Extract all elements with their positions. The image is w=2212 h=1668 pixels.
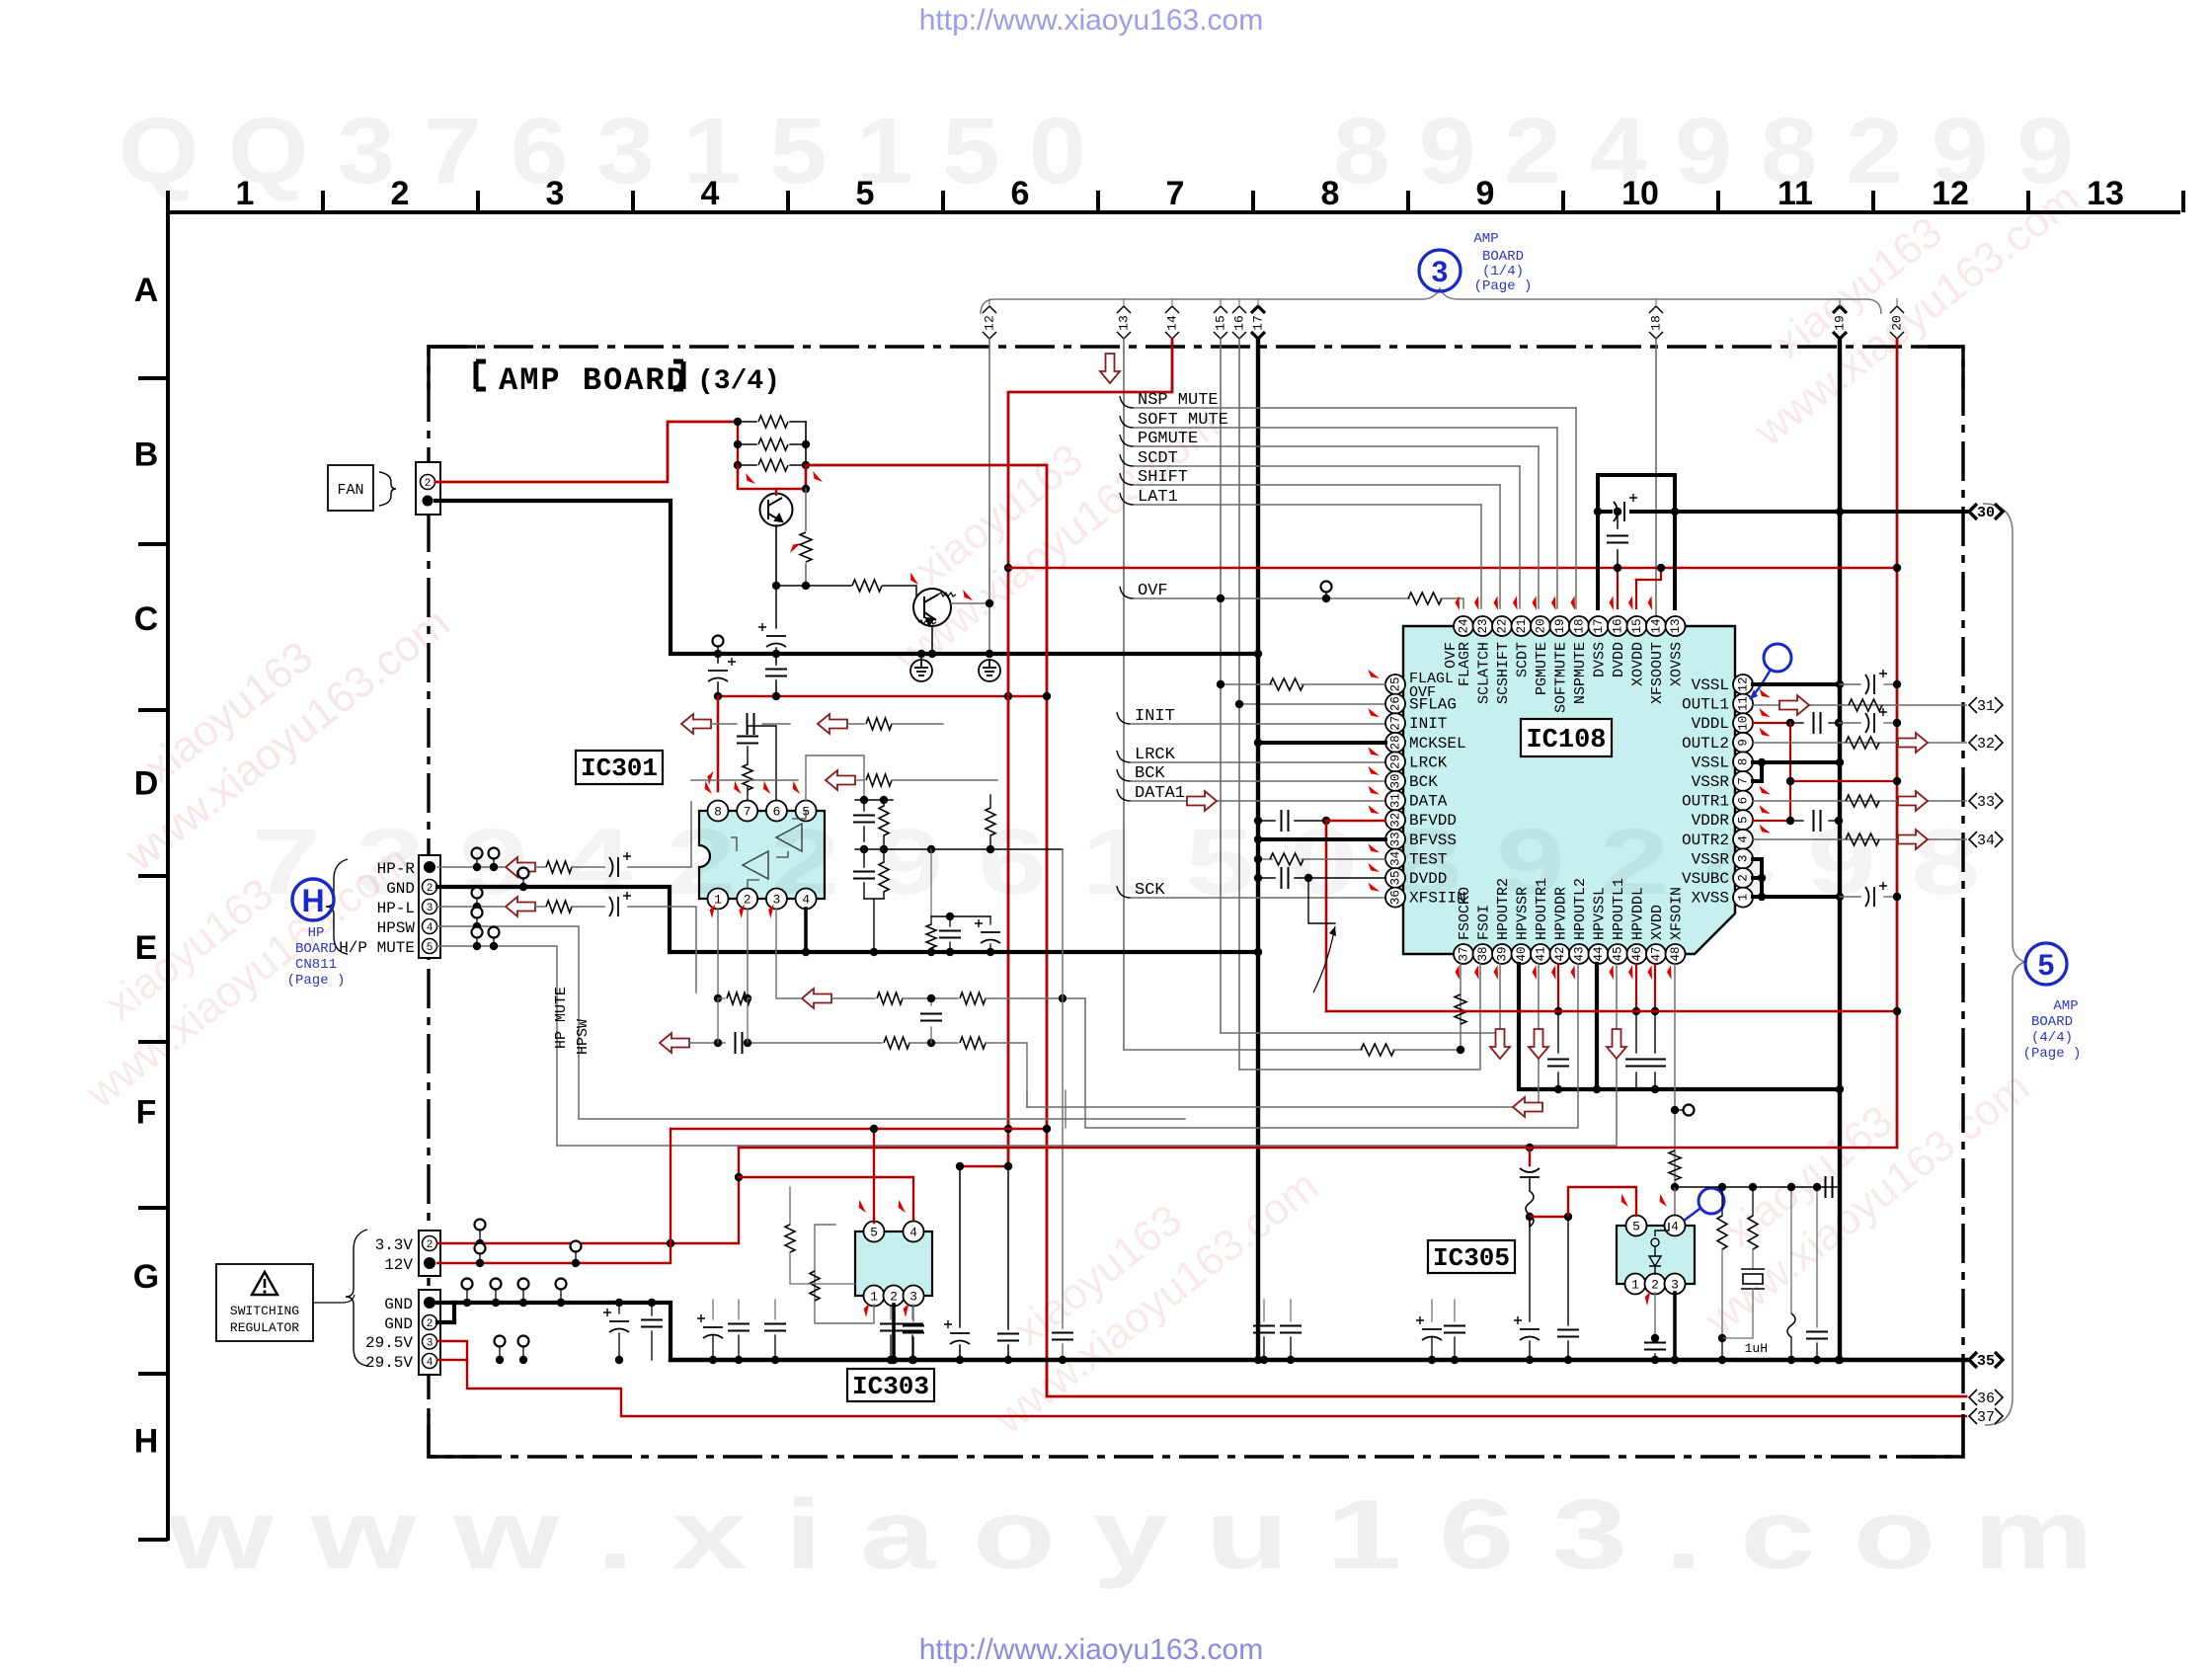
connector 34 <box>1969 832 2003 847</box>
wire Q1 base feed <box>738 465 806 489</box>
wire <box>1884 683 1897 685</box>
pin 1 <box>1625 1274 1646 1295</box>
svg-text:SHIFT: SHIFT <box>1138 468 1188 487</box>
callout circle blue <box>1764 644 1791 672</box>
pin 26 <box>1385 694 1405 714</box>
svg-text:(4/4): (4/4) <box>2031 1030 2073 1046</box>
junction <box>1836 680 1844 688</box>
svg-text:(Page ): (Page ) <box>1474 278 1533 294</box>
svg-text:SFLAG: SFLAG <box>1409 696 1457 714</box>
junction <box>1758 874 1766 882</box>
wire pin25 net <box>1221 683 1272 685</box>
wire <box>989 944 991 952</box>
wire p5 stub <box>806 755 864 800</box>
pin 35 <box>1385 868 1405 888</box>
svg-text:5: 5 <box>856 175 875 212</box>
junction <box>1835 1356 1843 1364</box>
border corner BL <box>429 1414 476 1457</box>
pin 13 <box>1666 616 1686 636</box>
connector 17 <box>1251 306 1265 339</box>
wire red net14 <box>1008 339 1172 1166</box>
pin 36 <box>1385 888 1405 908</box>
svg-text:3: 3 <box>1671 1278 1679 1293</box>
svg-text:BOARD: BOARD <box>1482 249 1524 265</box>
wire OUTL1 <box>1753 704 1966 706</box>
probe mark <box>1531 965 1543 980</box>
svg-text:7: 7 <box>1736 777 1750 785</box>
inductor L305 <box>1526 1191 1534 1227</box>
junction <box>572 1259 580 1267</box>
pin 4 <box>1733 830 1753 849</box>
junction <box>1614 564 1621 572</box>
junction <box>1836 893 1844 901</box>
svg-text:NSPMUTE: NSPMUTE <box>1572 642 1589 704</box>
wire <box>1654 1293 1656 1338</box>
junction <box>476 1239 484 1247</box>
wire IC305 feed <box>1529 1148 1531 1165</box>
svg-text:9: 9 <box>1736 739 1750 747</box>
resistor <box>1846 834 1879 845</box>
capacitor C p3 <box>903 1326 924 1333</box>
probe mark <box>1367 882 1381 891</box>
wire Q2 out <box>951 602 989 604</box>
wire p3 down <box>776 909 800 998</box>
svg-text:REGULATOR: REGULATOR <box>230 1320 299 1335</box>
wire DVDD35 a <box>1258 877 1275 879</box>
signal arrow <box>826 770 855 790</box>
svg-text:35: 35 <box>1977 1353 1995 1370</box>
svg-text:(Page ): (Page ) <box>287 973 346 989</box>
wire <box>1431 1300 1433 1321</box>
wire <box>522 878 524 887</box>
probe mark <box>1367 843 1381 852</box>
svg-text:2: 2 <box>391 175 410 212</box>
signal arrow <box>802 989 831 1008</box>
svg-text:PGMUTE: PGMUTE <box>1138 430 1198 448</box>
electrolytic capacitor C emitter <box>758 623 786 647</box>
capacitor C rail2 <box>765 670 787 676</box>
svg-text:30: 30 <box>1388 773 1402 788</box>
junction <box>927 948 935 956</box>
wire <box>855 799 893 801</box>
svg-text:10: 10 <box>1621 175 1659 212</box>
wire <box>738 443 756 445</box>
wire <box>1131 800 1385 802</box>
resistor <box>800 532 812 562</box>
junction <box>1671 508 1679 516</box>
svg-text:BCK: BCK <box>1409 773 1438 791</box>
test point <box>495 1336 506 1347</box>
test point <box>571 1241 582 1252</box>
junction <box>1749 1183 1757 1191</box>
junction <box>709 1356 717 1364</box>
svg-text:AMP: AMP <box>2053 998 2078 1014</box>
border corner TL <box>429 347 476 389</box>
resistor R rc2 <box>879 862 889 892</box>
border corner TR <box>1916 347 1963 389</box>
capacitor C r748 <box>728 1324 750 1331</box>
junction <box>744 994 751 1002</box>
wire <box>1675 1109 1683 1111</box>
test point <box>518 868 529 879</box>
junction <box>1043 692 1051 700</box>
svg-text:2: 2 <box>427 1318 434 1330</box>
wire ladder right rail <box>805 422 807 465</box>
svg-text:7 3 9 4 2 2 9 6 1 5 0 8 9 2 4: 7 3 9 4 2 2 9 6 1 5 0 8 9 2 4 9 8 <box>252 810 1980 914</box>
junction <box>956 1356 964 1364</box>
wire <box>790 464 806 466</box>
ruler top line <box>168 210 2180 214</box>
probe mark <box>1665 965 1678 980</box>
wire <box>1529 1177 1531 1191</box>
wire <box>903 997 958 999</box>
wire main red +B <box>806 465 1966 1396</box>
probe mark <box>1367 863 1381 872</box>
pin 41 <box>1531 944 1550 964</box>
title bracket right <box>673 361 683 389</box>
probe mark <box>1367 670 1381 678</box>
svg-text:9: 9 <box>1476 175 1495 212</box>
capacitor C r924 <box>902 1324 923 1331</box>
wire <box>476 917 478 926</box>
probe mark <box>731 781 746 794</box>
junction <box>1287 1356 1295 1364</box>
wire <box>1134 504 1481 506</box>
wire 29.5V b <box>437 1360 1966 1416</box>
wire Q2 emitter gnd <box>931 626 933 654</box>
capacitor C vddl <box>1814 712 1821 734</box>
wire <box>717 682 719 696</box>
svg-text:12: 12 <box>1932 175 1969 212</box>
switching regulator box <box>216 1264 313 1341</box>
svg-text:HPSW: HPSW <box>575 1019 592 1055</box>
wire HPVDDR <box>1557 964 1559 1011</box>
pin 6 <box>1733 791 1753 811</box>
wire <box>1654 1011 1656 1053</box>
wire <box>1840 683 1860 685</box>
wire <box>949 942 951 952</box>
wire <box>911 1300 913 1319</box>
test point <box>518 1279 529 1290</box>
wire <box>1721 1338 1723 1360</box>
capacitor C 305b <box>1557 1330 1579 1337</box>
wire <box>1722 1289 1753 1338</box>
wire HPOUTR2 <box>1221 964 1500 1033</box>
wire HPSW <box>437 926 1185 1119</box>
test point <box>713 636 724 647</box>
HP pin 3 <box>423 900 437 914</box>
junction <box>735 1356 743 1364</box>
junction <box>1059 1356 1066 1364</box>
probe mark <box>1367 708 1381 717</box>
wire <box>847 723 864 725</box>
wire <box>738 1148 740 1243</box>
wire BFVDD red <box>1326 820 1385 822</box>
svg-text:13: 13 <box>2087 175 2124 212</box>
wire <box>476 937 478 946</box>
wire <box>790 1252 855 1284</box>
probe mark <box>863 1304 873 1317</box>
net label OVF <box>1120 587 1134 598</box>
wire <box>1557 1011 1559 1053</box>
junction <box>615 1299 623 1307</box>
capacitor C r785 <box>764 1324 786 1331</box>
wire <box>1062 1344 1064 1360</box>
pin 17 <box>1589 616 1609 636</box>
wire HPOUTR1 <box>1027 964 1539 1107</box>
wire <box>1007 1166 1009 1329</box>
capacitor C pwr2 <box>997 1334 1019 1341</box>
wire HPVSSL <box>1595 964 1599 1089</box>
pin 7 <box>1733 771 1753 791</box>
wire <box>618 1333 620 1360</box>
svg-text:21: 21 <box>1515 618 1529 633</box>
svg-text:XOVDD: XOVDD <box>1630 642 1647 686</box>
junction <box>927 845 935 853</box>
capacitor C p2 <box>1644 1343 1666 1350</box>
svg-text:1: 1 <box>870 1290 878 1305</box>
electrolytic capacitor C pwr1 <box>944 1320 970 1344</box>
crystal <box>1741 1269 1765 1289</box>
svg-text:G: G <box>133 1258 159 1296</box>
pwr pin 4 <box>423 1354 437 1369</box>
capacitor C rc2 <box>853 872 875 879</box>
wire stub 16 <box>1238 298 1240 306</box>
connector 16 <box>1232 306 1246 339</box>
svg-text:D: D <box>134 765 159 803</box>
wire stub 15 <box>1220 298 1222 306</box>
junction <box>1758 758 1766 766</box>
junction <box>1787 1183 1795 1191</box>
op-amp IC301 body <box>699 811 825 899</box>
pin 21 <box>1512 616 1532 636</box>
junction <box>1526 1356 1534 1364</box>
pwr pin 12v <box>424 1257 435 1269</box>
junction <box>1836 508 1844 516</box>
wire <box>930 998 932 1005</box>
wire <box>738 464 756 466</box>
probe mark <box>1758 825 1772 834</box>
wire VDDL <box>1753 722 1790 724</box>
svg-text:B: B <box>134 437 159 474</box>
svg-text:XFSOOUT: XFSOOUT <box>1649 642 1666 704</box>
probe mark <box>1656 1194 1671 1207</box>
connector 19 <box>1833 306 1847 339</box>
wire <box>1752 1187 1754 1216</box>
wire <box>1617 550 1619 568</box>
signal arrow <box>506 857 535 877</box>
wire <box>535 906 545 908</box>
junction <box>734 461 742 469</box>
pin 5 <box>1733 810 1753 830</box>
wire to Q2 base <box>776 585 851 587</box>
wire mid rail <box>855 848 1063 850</box>
wire <box>909 1042 958 1044</box>
wire red vdd rail <box>1326 1010 1897 1013</box>
svg-text:INIT: INIT <box>1409 715 1447 733</box>
wire net15 <box>1220 339 1222 1033</box>
svg-text:SOFTMUTE: SOFTMUTE <box>1553 642 1570 713</box>
wire net13 <box>1124 339 1362 1050</box>
wire FSOCKO <box>1460 964 1461 1050</box>
junction <box>1835 719 1843 727</box>
wire red 1162 <box>739 1147 1897 1149</box>
wire <box>747 726 749 733</box>
wire IC303 fb <box>815 1225 874 1323</box>
svg-text:12: 12 <box>1736 676 1750 691</box>
junction <box>1254 948 1262 956</box>
wire <box>774 1335 776 1360</box>
probe mark <box>895 1200 909 1213</box>
connector 33 <box>1969 793 2003 809</box>
resistor <box>1408 593 1442 604</box>
connector 18 <box>1649 306 1663 339</box>
junction <box>734 418 742 426</box>
pin 18 <box>1569 616 1589 636</box>
probe mark <box>1758 728 1772 737</box>
connector 31 <box>1969 697 2003 713</box>
svg-text:FAN: FAN <box>337 482 363 499</box>
signal arrow <box>1100 354 1120 383</box>
svg-text:IC108: IC108 <box>1526 726 1606 755</box>
capacitor C gnd2 <box>641 1320 663 1327</box>
resistor <box>727 993 750 1004</box>
HP brace <box>326 859 348 954</box>
pin 40 <box>1512 944 1532 964</box>
wire DVDD stub <box>1617 568 1619 608</box>
svg-text:DVDD: DVDD <box>1611 642 1627 677</box>
resistor R top <box>986 808 995 835</box>
pin 2 <box>737 889 757 910</box>
wire net16 <box>1238 339 1240 1070</box>
HP pin HP-R <box>424 861 435 873</box>
electrolytic capacitor C gnd1 <box>603 1309 629 1332</box>
wire <box>535 866 545 868</box>
pin 22 <box>1492 616 1512 636</box>
ground <box>910 660 932 681</box>
svg-text:11: 11 <box>1777 175 1813 212</box>
svg-text:8: 8 <box>1736 758 1750 766</box>
electrolytic capacitor C m1450 <box>1416 1316 1442 1340</box>
probe mark <box>908 572 922 585</box>
svg-text:20: 20 <box>1889 315 1904 331</box>
junction <box>1657 564 1665 572</box>
svg-text:14: 14 <box>1649 618 1663 633</box>
wire <box>1263 1337 1265 1360</box>
junction <box>1004 1125 1012 1133</box>
junction <box>1813 1183 1821 1191</box>
wire stub 13 <box>1123 298 1125 306</box>
wire BFVDD a <box>1258 820 1275 822</box>
connector 35 <box>1969 1352 2003 1368</box>
svg-text:(1/4): (1/4) <box>1482 264 1524 279</box>
wire 12V <box>437 1129 1047 1263</box>
wire stub 18 <box>1655 298 1657 306</box>
probe mark <box>1758 688 1772 697</box>
test point <box>1684 1105 1695 1116</box>
polarized cap <box>1520 1168 1540 1177</box>
wire <box>1635 1072 1637 1089</box>
wire <box>863 800 865 811</box>
wire p4 stub <box>1674 1187 1676 1216</box>
probe mark <box>1367 747 1381 755</box>
junction <box>1593 1085 1601 1093</box>
junction <box>1632 1007 1640 1015</box>
junction <box>890 1356 898 1364</box>
net label DATA1 <box>1117 789 1131 801</box>
wire <box>1134 484 1500 486</box>
wire <box>522 1346 524 1360</box>
resistor <box>866 774 892 786</box>
pin 12 <box>1733 675 1753 694</box>
junction <box>473 922 481 930</box>
junction <box>860 845 868 853</box>
wire net16 pin26 <box>1239 703 1385 705</box>
junction <box>476 1259 484 1267</box>
svg-text:10: 10 <box>1736 716 1750 731</box>
ground <box>979 660 1000 681</box>
svg-text:2: 2 <box>1651 1278 1659 1293</box>
junction <box>917 650 925 658</box>
warning triangle <box>252 1272 277 1295</box>
signal arrow <box>1187 791 1217 811</box>
wire <box>930 948 932 952</box>
pin 24 <box>1454 616 1473 636</box>
probe mark <box>1608 596 1620 610</box>
junction <box>1718 1356 1726 1364</box>
resistor <box>785 1225 795 1252</box>
wire <box>1884 896 1897 898</box>
svg-text:14: 14 <box>1164 315 1179 331</box>
HP pin 5 <box>423 939 437 954</box>
pin 3 <box>904 1286 924 1307</box>
resistor <box>926 924 936 948</box>
electrolytic capacitor C hpr in <box>609 852 631 877</box>
svg-text:11: 11 <box>1736 696 1750 711</box>
signal arrow <box>1898 733 1928 753</box>
wire to pin24 <box>1441 598 1463 608</box>
svg-text:AMP BOARD: AMP BOARD <box>499 362 687 399</box>
svg-text:LRCK: LRCK <box>1409 754 1448 771</box>
wire red 1181 <box>960 1165 1008 1167</box>
test point <box>472 888 483 899</box>
wire <box>883 849 885 862</box>
wire <box>747 747 749 764</box>
probe mark <box>1646 596 1659 610</box>
wire <box>476 858 478 867</box>
svg-text:5: 5 <box>2038 949 2055 982</box>
junction <box>1004 564 1012 572</box>
junction <box>1043 1125 1051 1133</box>
wire <box>1839 722 1860 724</box>
junction <box>1428 1356 1436 1364</box>
junction <box>802 461 810 469</box>
svg-text:SCSHIFT: SCSHIFT <box>1495 642 1512 704</box>
junction <box>735 1173 743 1181</box>
svg-text:22: 22 <box>1495 618 1509 633</box>
junction <box>1786 777 1794 785</box>
capacitor C rc1 <box>853 816 875 823</box>
wire stub r1 <box>1065 1090 1066 1128</box>
capacitor C hpr <box>1547 1060 1569 1067</box>
wire DVSS loop <box>1598 475 1675 608</box>
pin 7 <box>737 801 757 822</box>
resistor <box>1455 994 1466 1024</box>
pin 28 <box>1385 733 1405 753</box>
connector 36 <box>1969 1390 2003 1405</box>
probe mark <box>701 781 716 794</box>
svg-text:43: 43 <box>1572 946 1586 961</box>
